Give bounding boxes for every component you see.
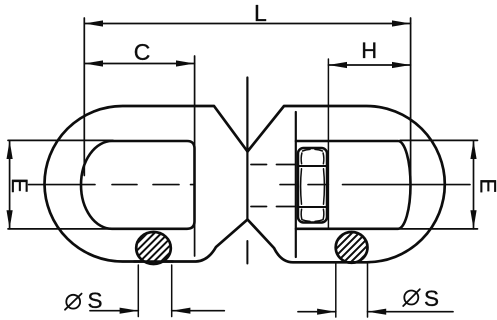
dim E right bottom extension: [400, 228, 478, 230]
body bottom edge over left section circle: [134, 260, 173, 263]
dim L/H right extension line: [410, 18, 412, 185]
dim L left extension line: [83, 18, 85, 176]
dim L arrow right: [392, 20, 411, 26]
dim S right line left part: [298, 311, 336, 313]
svg-text:S: S: [424, 286, 439, 311]
dim S left line right part: [172, 310, 225, 312]
hidden thread line upper (dashed): [251, 164, 296, 166]
dim E right arrow up: [470, 140, 476, 159]
dim C right extension line: [194, 56, 196, 256]
dim S right line right part: [368, 311, 454, 313]
svg-text:H: H: [361, 38, 377, 63]
label diameter symbol right: [404, 291, 418, 305]
svg-text:L: L: [254, 0, 267, 26]
left section circle of bar: [136, 232, 171, 264]
svg-text:C: C: [134, 39, 151, 65]
dim S left line left part: [90, 310, 138, 312]
label diameter symbol left: [66, 295, 80, 309]
dim S left extension lines: [137, 265, 139, 317]
dim E right top extension: [400, 139, 478, 141]
right eye outer outline: [248, 106, 445, 262]
dim E left line: [9, 140, 11, 229]
swivel pin vertical centerline through neck: [246, 78, 248, 220]
svg-text:E: E: [7, 178, 32, 193]
right eye inner hole: [296, 141, 411, 229]
left eye outer outline: [45, 106, 248, 262]
dim C arrow left: [84, 60, 103, 66]
right section hatching: [325, 200, 378, 295]
nut chamfer arcs middle facet: [301, 169, 325, 204]
crown inner face line: [295, 112, 297, 257]
nut chamfer arcs lower facet: [301, 209, 324, 221]
left section hatching: [127, 201, 180, 296]
nut facet line lower: [299, 206, 327, 208]
dim L arrow left: [84, 20, 103, 26]
dim H left extension line: [327, 59, 329, 229]
hidden thread line lower (dashed): [251, 206, 296, 208]
center mark below neck: [246, 241, 248, 264]
dim H line: [328, 64, 410, 66]
nut chamfer arcs upper facet: [301, 149, 324, 163]
dim S left arrow pointing right: [120, 308, 139, 314]
dim S right extension lines: [335, 263, 337, 317]
dim E right line: [473, 140, 475, 229]
dim H arrow left: [328, 62, 347, 68]
dim H arrow right: [392, 62, 411, 68]
right section circle of bar: [336, 232, 368, 263]
svg-text:S: S: [88, 288, 103, 313]
dim E left arrow down: [7, 210, 13, 229]
nut facet line upper: [299, 165, 327, 167]
hex nut outline: [298, 148, 327, 223]
dim C arrow right: [176, 60, 195, 66]
dim E left arrow up: [7, 140, 13, 159]
body bottom edge over right section circle: [334, 261, 369, 264]
horizontal centerline (dash-dot): [29, 184, 471, 186]
dim S left arrow pointing left: [172, 308, 191, 314]
dim S right arrow pointing right: [317, 309, 336, 315]
svg-text:E: E: [475, 179, 497, 194]
dim E right arrow down: [470, 210, 476, 229]
dim C line: [84, 63, 194, 65]
dim S right arrow pointing left: [368, 309, 387, 315]
left eye inner hole: [81, 141, 195, 229]
dim L line: [84, 23, 410, 25]
dim E left bottom extension: [8, 228, 113, 230]
dim E left top extension: [8, 139, 113, 141]
